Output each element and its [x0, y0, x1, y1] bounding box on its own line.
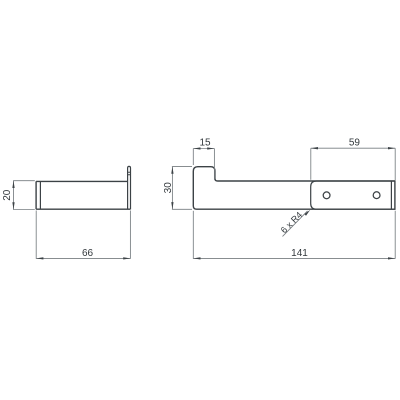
hole right — [373, 192, 380, 199]
dimension 20: dimension line — [13, 181, 15, 210]
dimension 66: dimension line — [36, 257, 130, 259]
svg-text:15: 15 — [199, 138, 211, 149]
svg-text:66: 66 — [82, 248, 94, 259]
svg-text:141: 141 — [291, 248, 308, 259]
dimension 59: extension lines — [311, 148, 395, 259]
dimension 66: arrows — [36, 257, 130, 259]
dimension 141: extension lines — [192, 211, 194, 259]
dimension 15: dimension line — [193, 148, 214, 150]
left view bent tab (double line, rounded top) — [128, 166, 131, 209]
dimension 15: arrows — [193, 147, 214, 149]
leader 6 x R4: arrow — [304, 210, 310, 216]
dimension 141: dimension line — [193, 257, 395, 259]
dimension 20: arrows — [12, 181, 14, 210]
dimension 59: dimension line — [311, 147, 395, 149]
tab tick marks — [128, 172, 131, 175]
hole left — [323, 192, 330, 199]
dimension 66: extension lines — [36, 211, 130, 259]
dimension 20: extension lines — [13, 181, 35, 210]
leader 6 x R4: line — [283, 211, 308, 237]
right view outline — [193, 167, 395, 210]
dimension 30: arrows — [171, 167, 173, 210]
dimension 59: arrows — [311, 147, 395, 149]
plate bend line at right end — [390, 181, 392, 209]
left view inner wall line — [39, 181, 41, 209]
mounting plate with rounded left corners — [311, 181, 395, 209]
svg-text:20: 20 — [2, 189, 13, 201]
svg-text:30: 30 — [163, 182, 174, 194]
left view outer rectangle — [36, 181, 130, 209]
svg-text:6 x R4: 6 x R4 — [279, 210, 304, 235]
dimension 30: extension lines — [172, 167, 192, 210]
dimension 30: dimension line — [171, 167, 173, 210]
dimension 15: extension lines — [193, 149, 214, 180]
dimension 141: arrows — [193, 257, 395, 259]
svg-text:59: 59 — [349, 137, 361, 148]
